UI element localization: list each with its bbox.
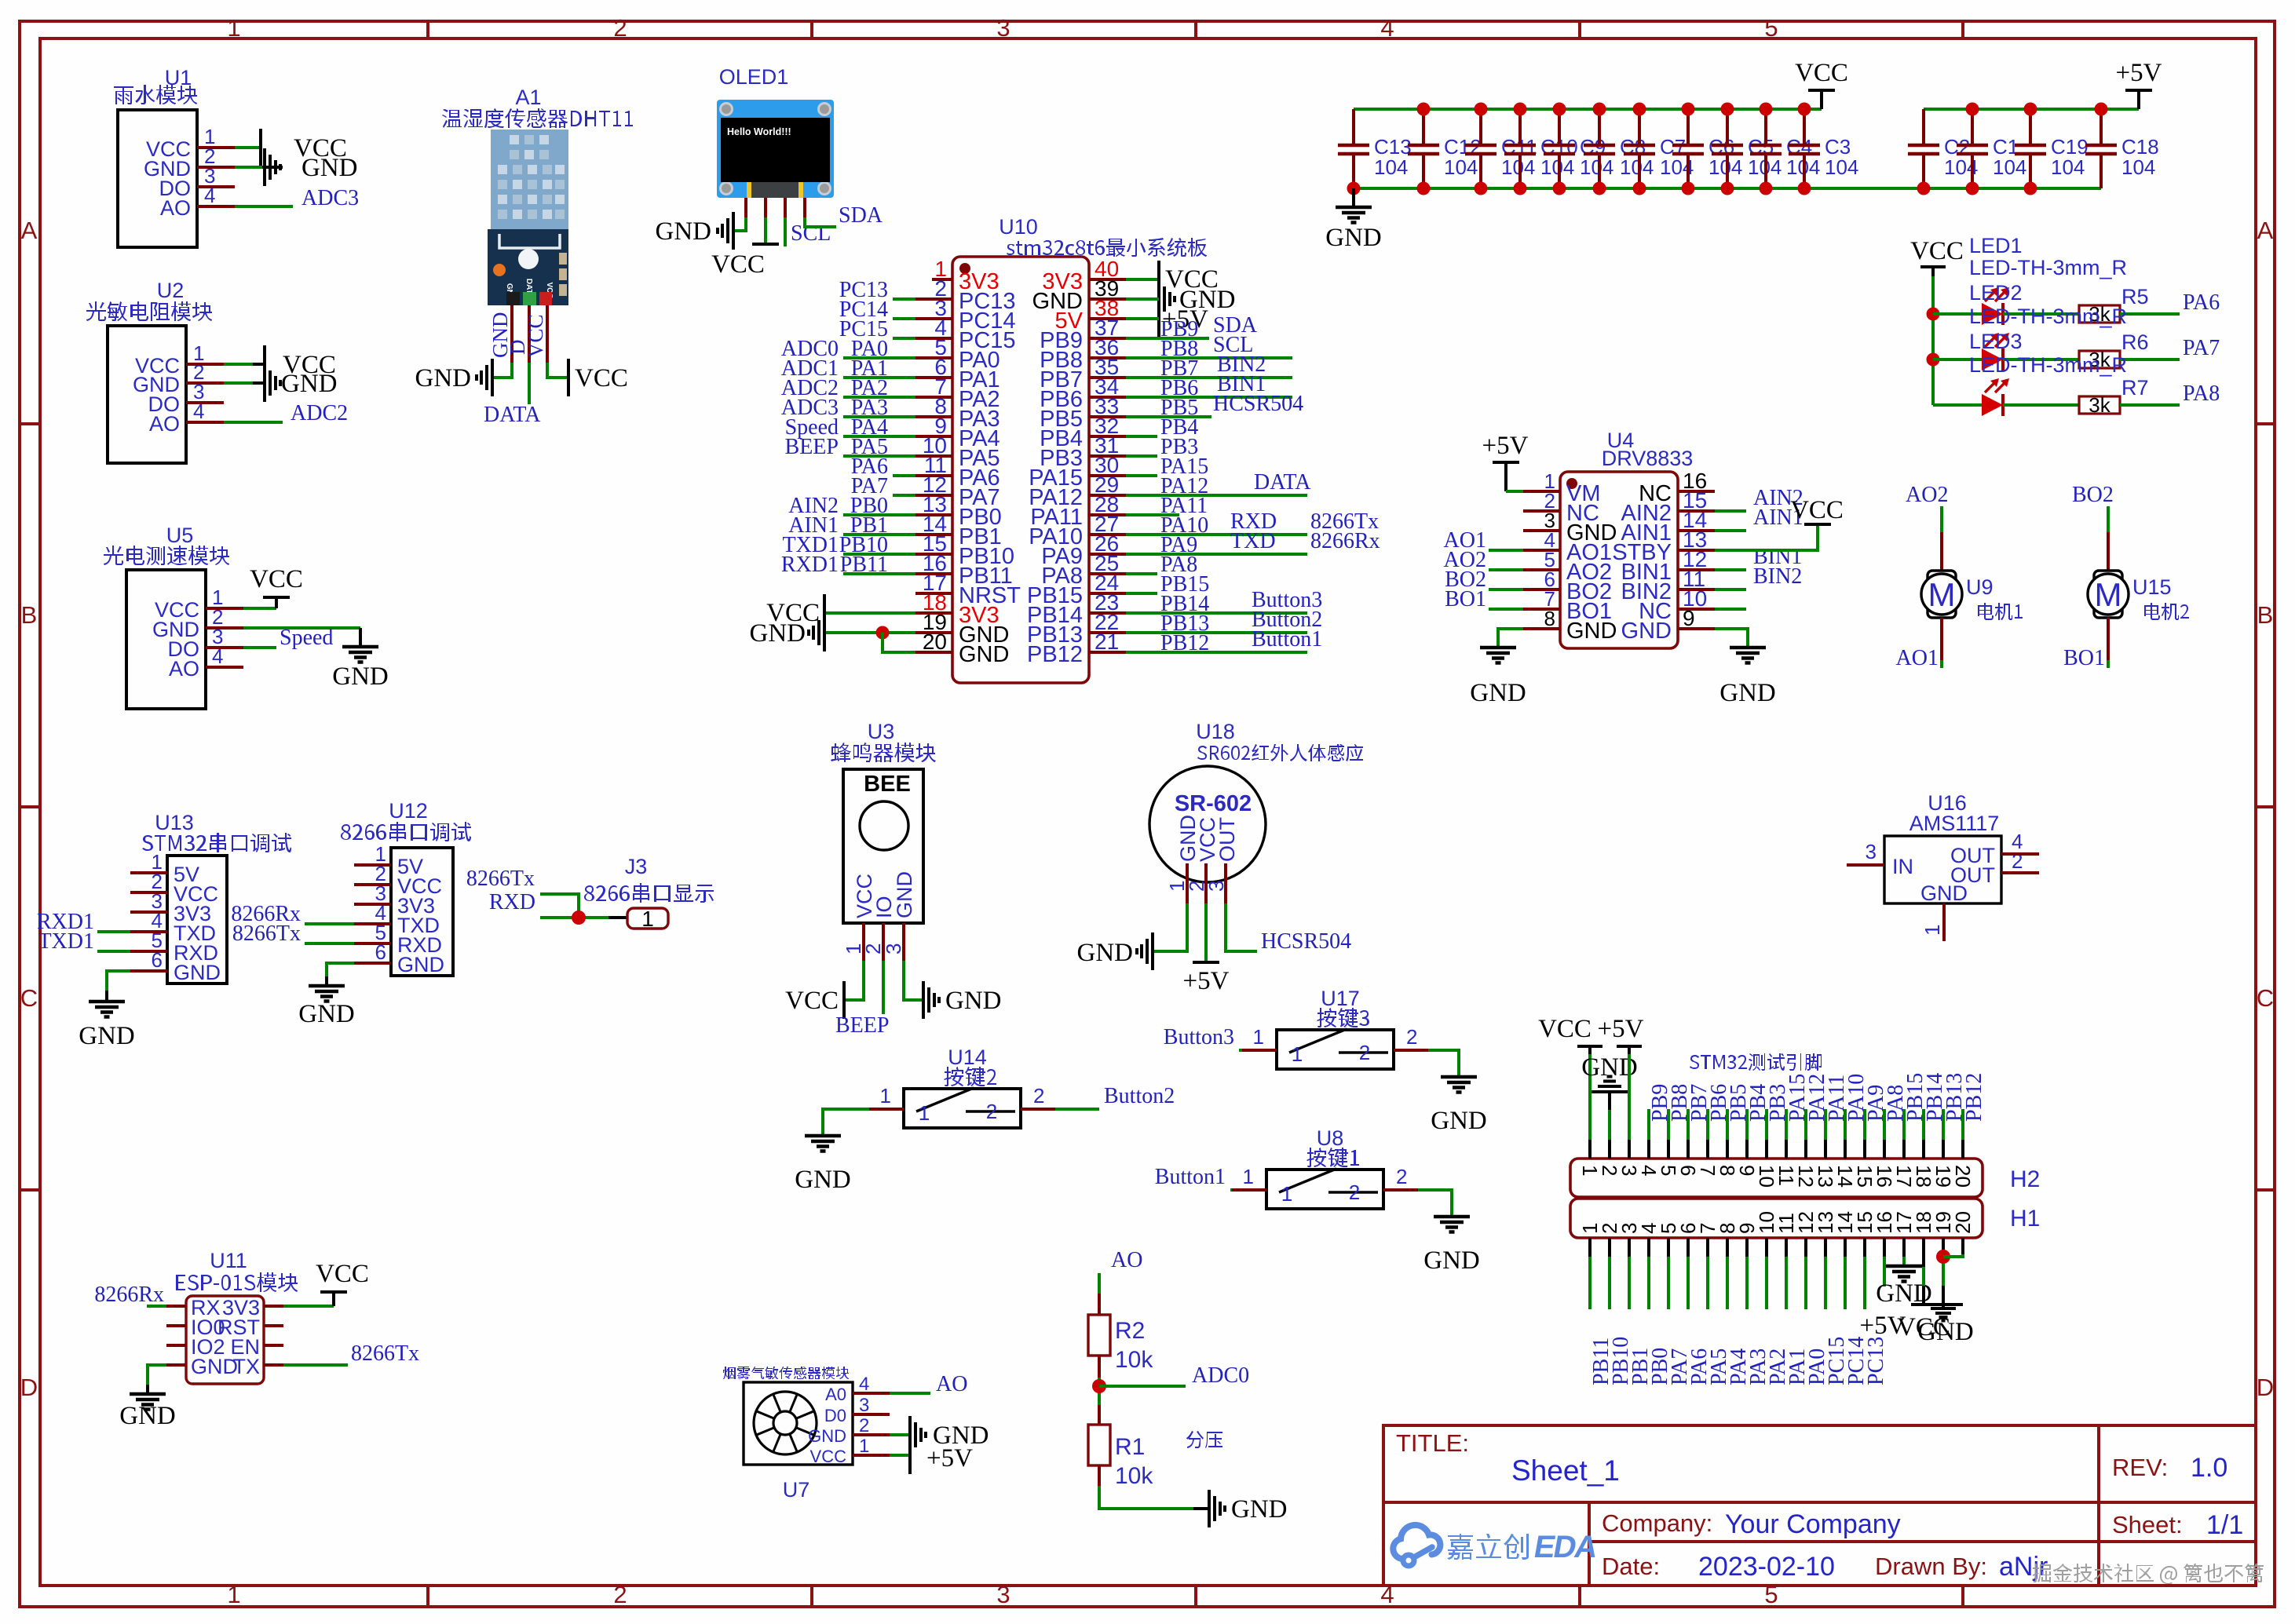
- wire U4 AIN2: [1715, 509, 1746, 513]
- svg-text:A: A: [2257, 217, 2274, 244]
- wire U10 pin23: [1126, 611, 1307, 615]
- module U1 rain sensor box: [114, 66, 215, 247]
- wire H2 pin19: [1942, 1109, 1945, 1140]
- net labels ADC0 PA0: [781, 337, 888, 361]
- wire U12 RXD: [305, 942, 354, 945]
- wire H1 pin17 GND: [1902, 1238, 1906, 1257]
- pin stubs U3: [864, 923, 904, 961]
- svg-text:104: 104: [1501, 155, 1535, 179]
- svg-text:GND: GND: [397, 953, 444, 976]
- wire U10 pin34: [1126, 396, 1292, 399]
- svg-text:DATA: DATA: [1254, 470, 1311, 494]
- svg-text:U18: U18: [1196, 720, 1235, 743]
- wire U2 AO to ADC2: [224, 421, 283, 424]
- net labels RXD1 PB11: [781, 553, 888, 577]
- wire OLED VCC: [764, 217, 767, 244]
- module U13 STM32 serial debug box: [142, 811, 291, 984]
- power flag GND at U7: [910, 1416, 989, 1454]
- wire H2 pin3 +5V: [1628, 1046, 1631, 1140]
- svg-text:1: 1: [919, 1101, 930, 1125]
- svg-text:GND: GND: [795, 1166, 851, 1194]
- svg-text:EDA: EDA: [1531, 1529, 1600, 1564]
- svg-text:B: B: [21, 601, 38, 629]
- wire H2 pin18: [1922, 1109, 1925, 1140]
- svg-text:8266Rx: 8266Rx: [94, 1283, 164, 1307]
- power flag VCC at A1: [568, 359, 628, 396]
- svg-text:A: A: [21, 217, 38, 244]
- wire U11 TX: [283, 1363, 348, 1367]
- wire U10 pin22: [1126, 631, 1307, 634]
- svg-text:104: 104: [1444, 155, 1478, 179]
- wire H1 pin7: [1706, 1238, 1709, 1257]
- wire U8 left: [1230, 1188, 1232, 1192]
- svg-text:GND: GND: [1719, 679, 1776, 707]
- wire U10 pin24: [1126, 592, 1157, 595]
- header H2: [1570, 1159, 2040, 1197]
- svg-text:BO1: BO1: [1445, 587, 1486, 611]
- svg-text:LED-TH-3mm_R: LED-TH-3mm_R: [1969, 305, 2127, 328]
- svg-text:VCC: VCC: [1538, 1015, 1592, 1043]
- wire VCC to LED column: [1931, 276, 1935, 405]
- power flag GND at U4 left: [1470, 648, 1526, 707]
- svg-text:DRV8833: DRV8833: [1602, 447, 1694, 470]
- capacitor C19: [2015, 109, 2089, 188]
- header H1: [1570, 1199, 2040, 1238]
- capacitor C3: [1789, 109, 1858, 188]
- svg-text:AO: AO: [149, 412, 180, 436]
- pin stubs U8: [1232, 1188, 1266, 1192]
- wire H1 pin15: [1863, 1238, 1866, 1257]
- power flag VCC at cap bank: [1795, 59, 1848, 109]
- title block: [1383, 1425, 2256, 1586]
- svg-text:PA8: PA8: [2183, 381, 2220, 406]
- pin stubs U11: [166, 1306, 283, 1365]
- svg-text:+5V: +5V: [926, 1444, 973, 1473]
- svg-text:LED-TH-3mm_R: LED-TH-3mm_R: [1969, 353, 2127, 377]
- svg-text:2: 2: [613, 1581, 627, 1608]
- svg-text:GND: GND: [1621, 619, 1672, 644]
- wire H2 pin6: [1687, 1109, 1690, 1140]
- wire U4 STBY to VCC: [1715, 524, 1818, 550]
- power flag GND right of U10: [1164, 286, 1236, 314]
- svg-text:VCC: VCC: [785, 987, 839, 1015]
- wire H2 pin7: [1706, 1109, 1709, 1140]
- svg-text:PA6: PA6: [2183, 290, 2220, 315]
- svg-text:Drawn By:: Drawn By:: [1875, 1553, 1987, 1580]
- capacitor C4: [1750, 109, 1820, 188]
- wire U10 pin32: [1126, 435, 1157, 438]
- wire U5 DO Speed: [243, 646, 276, 649]
- label STM32 test pins: [1690, 1053, 1822, 1071]
- power flag GND at U5: [332, 628, 389, 691]
- svg-text:U8: U8: [1317, 1126, 1344, 1150]
- wire U10 pin15: [843, 553, 915, 556]
- power flag GND at OLED: [656, 212, 734, 250]
- wire U4 AO1: [1489, 549, 1523, 552]
- wire U10 pin10: [843, 454, 915, 458]
- wire U10 pin35: [1126, 376, 1292, 379]
- svg-text:VCC: VCC: [575, 364, 628, 392]
- svg-text:GND: GND: [808, 1426, 846, 1446]
- module U5 speed sensor box: [104, 524, 229, 709]
- motor U15 电机2: [2063, 483, 2189, 670]
- svg-text:U2: U2: [157, 279, 185, 302]
- wire U10 5V pin38: [1126, 317, 1159, 320]
- wire U10 pin7: [843, 396, 915, 399]
- wire U10 pin28: [1126, 513, 1179, 516]
- JLCEDA logo cloud: [1393, 1525, 1440, 1566]
- svg-text:4: 4: [859, 1374, 869, 1395]
- junction LED row1: [1927, 308, 1940, 321]
- net labels PC13 PC14 PC15: [839, 278, 888, 341]
- svg-text:1: 1: [1243, 1165, 1254, 1188]
- power flag GND at H1 pins16-17: [1876, 1266, 1932, 1308]
- svg-text:BEEP: BEEP: [785, 435, 839, 459]
- power flag GND at U11: [119, 1385, 176, 1430]
- svg-text:PB12: PB12: [1160, 631, 1209, 655]
- svg-text:GND: GND: [332, 662, 389, 691]
- svg-text:104: 104: [2051, 155, 2085, 179]
- svg-text:DATA: DATA: [484, 403, 541, 427]
- svg-text:AO: AO: [169, 657, 199, 681]
- wire U4 BIN2: [1715, 588, 1746, 591]
- svg-text:GND: GND: [1920, 881, 1968, 905]
- wire U7 GND: [890, 1433, 908, 1436]
- svg-text:104: 104: [1620, 155, 1654, 179]
- svg-text:OUT: OUT: [1215, 817, 1239, 862]
- svg-text:GND: GND: [1917, 1318, 1974, 1346]
- svg-text:TITLE:: TITLE:: [1396, 1429, 1469, 1457]
- capacitor C10: [1504, 109, 1578, 188]
- svg-text:GND: GND: [656, 217, 712, 246]
- svg-text:104: 104: [1374, 155, 1408, 179]
- frame column numbers: [227, 14, 1778, 1608]
- pin stubs U5: [206, 608, 243, 667]
- svg-text:Company:: Company:: [1602, 1509, 1712, 1537]
- capacitor C8: [1584, 109, 1654, 188]
- svg-text:Button1: Button1: [1155, 1165, 1226, 1189]
- wire U14 right: [1055, 1108, 1099, 1111]
- wire U18 GND: [1154, 903, 1187, 951]
- module U18 SR602 PIR sensor: [1149, 720, 1363, 892]
- wire U4 BO1: [1489, 608, 1523, 611]
- wire U10 pin6: [843, 376, 915, 379]
- IC U10 stm32c8t6 box: [952, 215, 1207, 683]
- svg-text:M: M: [2095, 576, 2122, 613]
- svg-text:AO: AO: [160, 196, 191, 220]
- svg-text:GND: GND: [1470, 679, 1526, 707]
- wire U7 VCC: [890, 1454, 908, 1457]
- wire OLED SDA: [805, 217, 836, 227]
- svg-text:R6: R6: [2121, 330, 2149, 354]
- power flag GND at U4 right: [1719, 648, 1776, 707]
- svg-text:20: 20: [1951, 1165, 1975, 1188]
- button U14 按键2: [880, 1046, 1045, 1128]
- junction H1 pin19: [1936, 1250, 1950, 1264]
- power flag +5V at U7: [910, 1436, 973, 1474]
- svg-text:3: 3: [996, 1581, 1010, 1608]
- junction LED row2: [1927, 353, 1940, 367]
- wire H1 pin3: [1628, 1238, 1631, 1257]
- svg-text:A1: A1: [515, 86, 541, 109]
- wire U10 pin13: [843, 513, 915, 516]
- frame row letters: [20, 217, 2274, 1401]
- svg-text:1: 1: [1292, 1042, 1303, 1066]
- svg-text:GND: GND: [750, 619, 806, 648]
- capacitor C13: [1338, 109, 1412, 188]
- wire U10 pin21: [1126, 651, 1307, 654]
- wire U1 GND: [235, 166, 262, 169]
- capacitor C11: [1465, 109, 1537, 188]
- svg-text:A0: A0: [825, 1385, 846, 1404]
- svg-text:PA7: PA7: [851, 474, 888, 498]
- svg-text:VCC: VCC: [810, 1447, 847, 1466]
- svg-text:+5V: +5V: [2116, 59, 2162, 87]
- svg-text:Hello World!!!: Hello World!!!: [727, 126, 791, 137]
- svg-text:1/1: 1/1: [2206, 1510, 2243, 1540]
- wire H1 pin12: [1804, 1238, 1807, 1257]
- power flag +5V at U18: [1183, 962, 1230, 995]
- svg-text:3: 3: [882, 943, 905, 954]
- svg-text:U13: U13: [155, 811, 194, 834]
- wire U10 pin27: [1126, 533, 1307, 536]
- wire H1 pin13: [1824, 1238, 1827, 1257]
- svg-text:1: 1: [227, 14, 240, 42]
- svg-text:VCC: VCC: [250, 565, 303, 593]
- svg-text:VCC: VCC: [1910, 237, 1964, 265]
- wire U10 GND pin20: [883, 633, 915, 652]
- junction U10 GND: [876, 626, 890, 640]
- svg-text:GND: GND: [119, 1402, 176, 1430]
- power flag VCC at LEDs: [1910, 237, 1964, 276]
- wire U4 BO2: [1489, 588, 1523, 591]
- svg-text:GND: GND: [1231, 1495, 1288, 1524]
- wire U13 TXD: [97, 930, 130, 933]
- capacitor C18: [2085, 109, 2159, 188]
- svg-text:1: 1: [641, 907, 654, 931]
- wire VCC rail capacitor bank: [1354, 108, 1822, 111]
- power flag GND at U1: [265, 148, 358, 186]
- wire U5 GND: [243, 626, 360, 630]
- pin stubs U7: [853, 1393, 890, 1455]
- svg-text:RXD: RXD: [489, 890, 535, 914]
- wire U10 pin8: [843, 415, 915, 418]
- net labels Speed PA4: [785, 415, 888, 440]
- capacitor C1: [1957, 109, 2026, 188]
- wire U17 right to GND: [1428, 1050, 1459, 1077]
- svg-text:+5V: +5V: [1183, 967, 1230, 995]
- svg-text:RXD1: RXD1: [781, 553, 839, 577]
- svg-text:2: 2: [1033, 1084, 1044, 1108]
- wire U10 pin5: [843, 356, 915, 359]
- svg-text:H2: H2: [2010, 1166, 2040, 1192]
- power flag GND at U17: [1431, 1077, 1487, 1135]
- wire U18 VCC: [1204, 903, 1208, 962]
- power flag +5V at H2: [1598, 1015, 1644, 1054]
- wire H1 pin2: [1608, 1238, 1611, 1257]
- module U3 buzzer box: [831, 720, 936, 954]
- power flag GND at H1 pin19: [1917, 1308, 1974, 1346]
- wire GND rail capacitor bank: [1354, 187, 2101, 190]
- module U2 photoresistor box: [86, 279, 212, 463]
- wire H1 pin10: [1765, 1238, 1768, 1257]
- pin stubs U14: [869, 1108, 904, 1111]
- net labels AIN2 PB0: [788, 494, 888, 518]
- wire U12 TXD: [305, 922, 354, 925]
- svg-text:B: B: [2257, 601, 2274, 629]
- svg-text:GND: GND: [893, 871, 916, 918]
- svg-text:104: 104: [1540, 155, 1574, 179]
- pin stubs U1: [197, 148, 235, 206]
- pin stubs U16: [1847, 863, 1884, 867]
- svg-text:D0: D0: [824, 1406, 846, 1425]
- wire U12 GND: [327, 963, 354, 976]
- pin stubs U2: [186, 364, 224, 422]
- wire U3 IO BEEP: [882, 961, 885, 1014]
- svg-text:VCC: VCC: [1795, 59, 1848, 87]
- wire R2 to junction: [1098, 1356, 1101, 1378]
- power flag GND at U8: [1423, 1217, 1480, 1275]
- svg-text:1: 1: [880, 1084, 891, 1108]
- wire H1 pin11: [1785, 1238, 1788, 1257]
- wire U10 3V3 pin40: [1126, 278, 1159, 281]
- svg-text:U11: U11: [210, 1249, 247, 1272]
- svg-text:8266Tx: 8266Tx: [466, 867, 535, 891]
- wire U10 pin26: [1126, 553, 1307, 556]
- svg-text:U1: U1: [165, 66, 192, 89]
- wire H1 pin4: [1647, 1238, 1650, 1257]
- wire 8266Tx to junction: [540, 894, 579, 918]
- svg-text:U14: U14: [948, 1046, 987, 1069]
- wire U1 AO to ADC3: [235, 205, 293, 208]
- svg-text:H1: H1: [2010, 1206, 2040, 1232]
- capacitor C5: [1712, 109, 1782, 188]
- wire U4 pin10 NC: [1715, 608, 1746, 611]
- wire U10 pin11: [893, 474, 915, 477]
- svg-text:5: 5: [1764, 14, 1778, 42]
- power flag GND at U14: [795, 1136, 851, 1194]
- svg-text:GND: GND: [1431, 1107, 1487, 1135]
- wire U2 VCC: [224, 363, 253, 366]
- wire H2 pin15: [1863, 1109, 1866, 1140]
- wire U8 right to GND: [1418, 1190, 1452, 1217]
- svg-text:GND: GND: [1566, 619, 1617, 644]
- wire U10 pin37: [1126, 337, 1209, 340]
- svg-text:AO: AO: [936, 1372, 967, 1396]
- connector J3: [584, 855, 714, 931]
- svg-text:C: C: [20, 984, 38, 1012]
- wire H2 pin17: [1902, 1109, 1906, 1140]
- wire H1 pin16: [1883, 1238, 1886, 1257]
- wire U10 GND pin19: [824, 631, 915, 634]
- wire U4 VM: [1506, 490, 1523, 493]
- svg-text:Button2: Button2: [1104, 1084, 1175, 1108]
- svg-text:1: 1: [859, 1436, 869, 1457]
- svg-text:R7: R7: [2121, 376, 2149, 400]
- wire junction to R1: [1098, 1405, 1101, 1425]
- svg-text:GND: GND: [301, 154, 358, 182]
- svg-text:2: 2: [1396, 1165, 1407, 1188]
- wire U7 A0: [890, 1392, 930, 1395]
- svg-text:VCC: VCC: [524, 314, 547, 358]
- svg-text:GND: GND: [1077, 939, 1134, 967]
- svg-text:U3: U3: [868, 720, 895, 743]
- power flag GND left of U10: [750, 614, 825, 651]
- wire U10 pin33: [1126, 415, 1211, 418]
- svg-text:Sheet:: Sheet:: [2112, 1511, 2183, 1538]
- svg-text:3: 3: [1866, 840, 1877, 863]
- svg-text:Speed: Speed: [280, 626, 333, 650]
- resistor R1 10k: [1088, 1425, 1153, 1489]
- wire U11 3V3 to VCC: [283, 1305, 334, 1308]
- power flag +5V VCC at H1: [1860, 1305, 1963, 1341]
- svg-text:AMS1117: AMS1117: [1909, 812, 2000, 835]
- wire OLED GND: [733, 217, 746, 231]
- capacitor C2: [1908, 109, 1978, 188]
- svg-text:+5V: +5V: [1482, 432, 1529, 460]
- power flag GND at U18: [1077, 932, 1153, 970]
- power flag GND at divider: [1209, 1490, 1288, 1527]
- svg-text:GND: GND: [945, 987, 1002, 1015]
- wire H2 pin10: [1765, 1109, 1768, 1140]
- power flag GND at H2 top: [1581, 1053, 1638, 1110]
- pin stubs U13: [130, 873, 167, 971]
- wire U13 RXD: [97, 950, 130, 953]
- svg-text:TX: TX: [232, 1355, 260, 1378]
- svg-text:VCC: VCC: [1790, 496, 1844, 524]
- svg-text:REV:: REV:: [2112, 1454, 2168, 1481]
- svg-text:LED2: LED2: [1969, 281, 2023, 305]
- svg-text:2: 2: [1349, 1181, 1360, 1204]
- svg-text:3k: 3k: [2089, 393, 2110, 417]
- power flag VCC at U4: [1790, 496, 1844, 524]
- wire U1 VCC: [235, 146, 259, 149]
- svg-text:Date:: Date:: [1602, 1553, 1660, 1580]
- svg-text:U15: U15: [2132, 575, 2172, 599]
- resistor R2 10k: [1088, 1315, 1153, 1373]
- wire H1 pin1: [1588, 1238, 1592, 1257]
- wire H1 pin9: [1745, 1238, 1749, 1257]
- power flag VCC at U1: [261, 129, 347, 166]
- power flag GND at cap bank: [1325, 188, 1382, 252]
- svg-text:Button1: Button1: [1252, 627, 1322, 651]
- module U12 8266 serial debug box: [341, 799, 471, 976]
- wire U10 pin12: [893, 494, 915, 497]
- pin stubs OLED1: [746, 198, 805, 217]
- wire RXD to J3: [540, 916, 608, 919]
- svg-text:1.0: 1.0: [2191, 1453, 2227, 1483]
- wire H1 pin8: [1726, 1238, 1729, 1257]
- U4 pin stubs: [1523, 491, 1715, 629]
- wire U10 pin25: [1126, 572, 1157, 575]
- power flag +5V at U4: [1482, 432, 1529, 491]
- svg-text:3: 3: [859, 1395, 869, 1416]
- wire U10 pin36: [1126, 356, 1292, 359]
- svg-text:GND: GND: [1423, 1246, 1480, 1275]
- svg-text:OLED1: OLED1: [719, 65, 789, 89]
- wire H2 pin1 VCC: [1588, 1046, 1592, 1140]
- power flag GND at U2: [265, 364, 338, 402]
- svg-text:GND: GND: [415, 364, 472, 392]
- svg-text:104: 104: [1580, 155, 1613, 179]
- wire OLED SCL: [784, 217, 787, 246]
- power flag VCC at OLED: [711, 244, 779, 279]
- wire U11 GND: [148, 1365, 166, 1385]
- wire H2 pin9: [1745, 1109, 1749, 1140]
- power flag VCC left of U10: [766, 594, 824, 632]
- capacitor C9: [1544, 109, 1613, 188]
- junctions capacitor rails: [1347, 103, 2108, 195]
